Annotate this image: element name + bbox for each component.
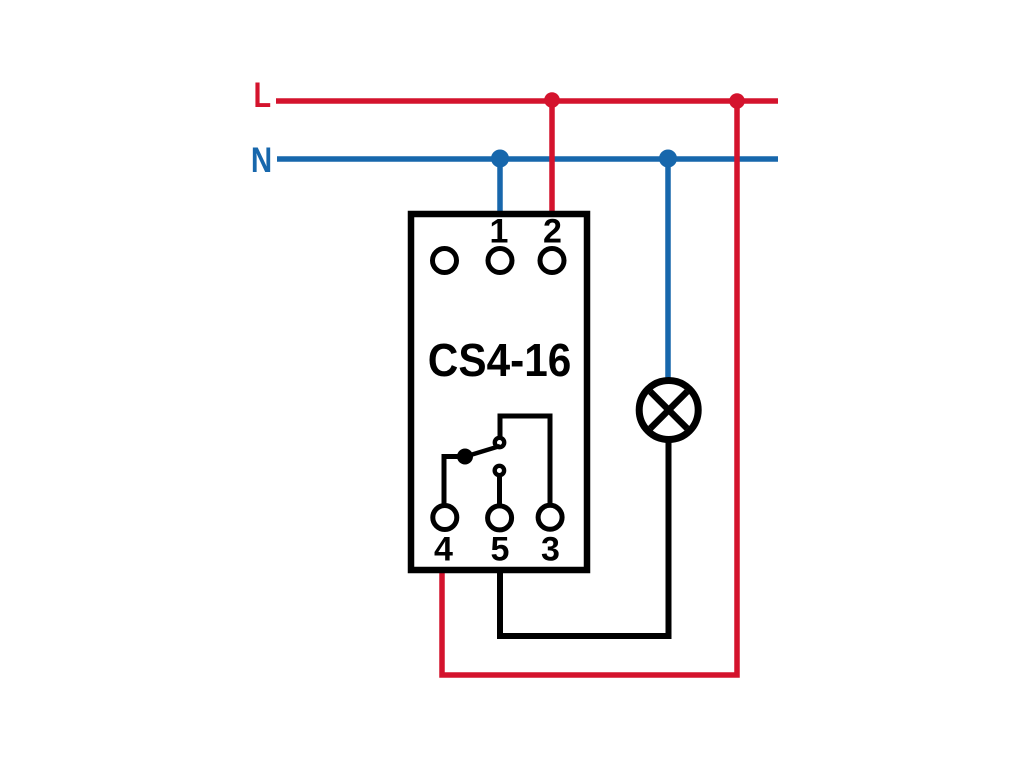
switch arm <box>464 446 500 457</box>
terminal circle 1 <box>488 249 512 273</box>
svg-text:1: 1 <box>490 213 509 251</box>
terminal circle 3 <box>538 505 562 529</box>
wire L to terminal 2 (red drop) <box>549 101 555 214</box>
terminal circle 5 <box>488 506 512 530</box>
lamp cross stroke 2 <box>650 392 687 429</box>
switch contact (top) <box>495 438 504 447</box>
wire pivot to terminal 4 <box>444 457 465 505</box>
wire N to lamp (blue drop) <box>665 159 671 380</box>
wire lamp to terminal 5 (black bottom link) <box>500 440 669 636</box>
switch bracket wire (contact to terminal 3) <box>500 416 550 504</box>
svg-text:L: L <box>254 76 272 115</box>
junction dot N / lamp branch <box>659 150 677 168</box>
switch contact (bottom) <box>495 466 504 475</box>
wire L return loop: terminal 4 down, across bottom, up to L <box>442 101 737 675</box>
wire L line (red horizontal) <box>276 98 778 104</box>
device CS4-16 box <box>411 214 587 570</box>
wire N line (blue horizontal) <box>277 156 778 162</box>
wire N to terminal 1 (blue drop) <box>497 159 503 214</box>
lamp cross stroke 1 <box>650 392 687 429</box>
svg-text:CS4-16: CS4-16 <box>428 334 572 386</box>
switch pivot dot <box>457 449 473 465</box>
svg-text:4: 4 <box>434 531 453 569</box>
junction dot N / terminal 1 branch <box>491 150 509 168</box>
svg-text:5: 5 <box>491 531 510 569</box>
terminal circle (top row, unlabeled) <box>433 249 457 273</box>
terminal circle 2 <box>540 249 564 273</box>
svg-text:N: N <box>251 141 272 180</box>
svg-text:3: 3 <box>541 531 560 569</box>
terminal circle 4 <box>433 506 457 530</box>
junction dot on L line <box>729 93 745 109</box>
wire contact to terminal 5 <box>497 475 502 504</box>
lamp symbol circle <box>639 381 698 440</box>
junction dot L / terminal 2 branch <box>544 92 560 108</box>
svg-text:2: 2 <box>543 213 562 251</box>
